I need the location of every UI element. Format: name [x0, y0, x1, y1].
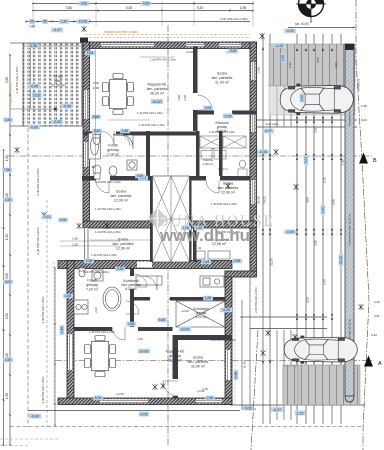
- section marker B: [359, 153, 368, 164]
- roof overhang east lower: [234, 277, 236, 404]
- party wall: [83, 221, 257, 228]
- svg-text:Tervezett kerítés 16,12 fm: Tervezett kerítés 16,12 fm: [348, 213, 352, 246]
- svg-text:2,05: 2,05: [225, 114, 232, 118]
- svg-text:0,30: 0,30: [288, 62, 292, 68]
- svg-text:-0,02: -0,02: [286, 29, 294, 33]
- svg-text:-0,07: -0,07: [273, 408, 281, 412]
- door gap: [193, 93, 198, 110]
- svg-text:1 db PIN A10-1,25m: 1 db PIN A10-1,25m: [91, 253, 118, 257]
- svg-text:2,40: 2,40: [183, 95, 187, 101]
- svg-text:12,96 m²: 12,96 m²: [221, 190, 236, 194]
- svg-text:0,06: 0,06: [245, 406, 252, 410]
- west outer dim line: [54, 268, 56, 425]
- top dimension chain 3: [26, 21, 250, 23]
- szoba south wall: [198, 111, 257, 115]
- svg-text:5,20: 5,20: [197, 6, 204, 10]
- terrace leader line: [10, 108, 58, 110]
- roof overhang east: [253, 41, 255, 271]
- top right level line: [288, 27, 354, 29]
- svg-text:6,20 m²: 6,20 m²: [125, 287, 137, 291]
- svg-text:0,13: 0,13: [44, 215, 51, 219]
- svg-text:Szoba: Szoba: [116, 190, 126, 194]
- fence band right: [345, 44, 354, 396]
- corridor door gap: [100, 132, 116, 136]
- svg-text:1,46: 1,46: [361, 104, 367, 108]
- svg-text:Fürdő: Fürdő: [108, 144, 117, 148]
- svg-text:Nappali+KÉ: Nappali+KÉ: [165, 349, 185, 354]
- west window middle zone: [84, 228, 90, 261]
- top dimension chain 1: [33, 3, 253, 5]
- kitchen counter upper unit: [200, 136, 247, 177]
- bathtub upper: [89, 133, 101, 159]
- svg-text:0,44: 0,44: [361, 118, 367, 122]
- driveway top lower lighter part: [269, 86, 355, 115]
- svg-text:1 db PIN A10-1,25m: 1 db PIN A10-1,25m: [89, 330, 116, 334]
- svg-text:4,60 m²: 4,60 m²: [203, 162, 214, 166]
- svg-text:2,70: 2,70: [323, 177, 327, 183]
- south wall window 2: [196, 399, 222, 403]
- svg-text:-0,05: -0,05: [30, 125, 38, 129]
- svg-text:2,55: 2,55: [86, 259, 93, 263]
- svg-text:lam. parketta: lam. parketta: [212, 76, 233, 80]
- east wall window 3: [251, 180, 256, 204]
- svg-text:2,40: 2,40: [93, 86, 99, 90]
- svg-text:2 db PIN A10-1,25m: 2 db PIN A10-1,25m: [41, 376, 45, 404]
- bath2 door gap: [130, 276, 134, 289]
- svg-text:1,50: 1,50: [5, 393, 9, 399]
- door gap2: [214, 111, 232, 115]
- lower unit east wall: [225, 271, 232, 405]
- south wall: [58, 398, 232, 405]
- svg-text:-0,05: -0,05: [63, 104, 71, 108]
- svg-text:Szoba: Szoba: [217, 72, 227, 76]
- bathtub lower: [103, 287, 121, 311]
- svg-text:2,50: 2,50: [5, 313, 9, 319]
- szoba B north wall: [173, 335, 233, 340]
- dining table upper: [103, 74, 134, 115]
- bath2 east wall: [130, 268, 134, 328]
- svg-text:-0,09: -0,09: [275, 44, 283, 48]
- svg-text:1 db PIN A10-1,00m: 1 db PIN A10-1,00m: [209, 130, 236, 134]
- east wall upper unit: [250, 42, 257, 272]
- wall nappali/szoba vertical: [193, 47, 198, 132]
- svg-text:2 db PIN A10-2,25m: 2 db PIN A10-2,25m: [36, 168, 40, 196]
- kitchen wall lower: [134, 297, 225, 301]
- svg-text:5,05: 5,05: [95, 396, 102, 400]
- svg-text:4,55: 4,55: [143, 2, 150, 6]
- svg-text:95: 95: [30, 20, 34, 24]
- svg-text:1,65: 1,65: [205, 296, 212, 300]
- kamra wall vertical: [219, 131, 223, 176]
- svg-text:5,65: 5,65: [137, 174, 144, 178]
- svg-text:6,00 m²: 6,00 m²: [195, 315, 207, 319]
- svg-text:1 db PIN A10-1,25m: 1 db PIN A10-1,25m: [150, 58, 177, 62]
- west wall upper unit: [83, 42, 90, 228]
- svg-text:3,00: 3,00: [306, 297, 310, 303]
- svg-text:1,50: 1,50: [321, 207, 325, 214]
- driveway bottom left patch: [283, 366, 298, 405]
- svg-text:2,55: 2,55: [128, 322, 135, 326]
- car bottom: [284, 336, 357, 363]
- extra vertical dim lines right: [276, 44, 278, 127]
- svg-text:1 db PIN A10-1,25m: 1 db PIN A10-1,25m: [139, 123, 166, 127]
- vertical extension lines top: [32, 1, 34, 26]
- wardrobe strip east wall: [189, 176, 192, 262]
- svg-text:pd 90: pd 90: [181, 309, 189, 313]
- lower north wall door gap: [137, 262, 152, 268]
- bathroom east wall: [146, 131, 150, 176]
- svg-text:3,00: 3,00: [332, 199, 336, 205]
- lower unit north wall: [58, 261, 232, 269]
- svg-text:10,05: 10,05: [79, 20, 88, 24]
- svg-text:5,65: 5,65: [87, 51, 94, 55]
- fence band top cap: [345, 44, 354, 50]
- svg-text:1,95: 1,95: [240, 6, 247, 10]
- survey marks: [81, 26, 86, 33]
- svg-text:1 db PIN A10-1,00m: 1 db PIN A10-1,00m: [95, 230, 122, 234]
- svg-text:6,30: 6,30: [300, 95, 304, 101]
- svg-text:lam. parketta: lam. parketta: [111, 194, 132, 198]
- svg-text:greslap: greslap: [107, 148, 119, 152]
- kitchen counter lower unit: [136, 276, 224, 287]
- svg-text:terepszint: terepszint: [357, 79, 361, 92]
- svg-text:-0,05: -0,05: [53, 120, 61, 124]
- car top: [280, 84, 353, 115]
- right property boundary dash-dot: [356, 0, 369, 450]
- section marker A: [364, 356, 373, 367]
- section line B-B horizontal: [8, 155, 372, 157]
- svg-text:greslap: greslap: [169, 354, 181, 358]
- svg-text:1,50: 1,50: [5, 358, 12, 362]
- svg-text:meglevő kerítés: meglevő kerítés: [9, 83, 13, 107]
- washing machine upper: [93, 160, 137, 179]
- svg-text:2,55: 2,55: [234, 259, 241, 263]
- szoba B door gap: [173, 379, 179, 396]
- east step wall: [225, 271, 257, 277]
- svg-text:2,70: 2,70: [323, 279, 327, 285]
- left inner dashed line: [46, 200, 48, 427]
- svg-text:3,00: 3,00: [177, 95, 181, 101]
- svg-text:36,30 m²: 36,30 m²: [150, 91, 165, 95]
- svg-text:1 db PIN A10-1,25m: 1 db PIN A10-1,25m: [95, 207, 122, 211]
- svg-text:2 db PIN A10-2,25m: 2 db PIN A10-2,25m: [254, 286, 258, 313]
- terrace bottom edge extension: [10, 125, 23, 127]
- svg-text:-0,47: -0,47: [53, 28, 61, 32]
- bathroom/room wall: [82, 176, 250, 181]
- svg-text:14,12: 14,12: [263, 196, 267, 204]
- svg-text:12,96 m²: 12,96 m²: [116, 246, 131, 250]
- svg-text:pd 90: pd 90: [116, 392, 124, 396]
- svg-text:85: 85: [43, 20, 47, 24]
- wc oval upper: [240, 160, 246, 168]
- bottom dashed boundary: [10, 426, 363, 428]
- svg-text:1,65: 1,65: [65, 294, 72, 298]
- svg-text:-0,05: -0,05: [30, 84, 38, 88]
- svg-text:Szoba: Szoba: [193, 356, 203, 360]
- west wall window 2: [84, 142, 89, 167]
- interior dim line along west wall: [95, 50, 97, 175]
- svg-text:2,31: 2,31: [374, 314, 380, 318]
- svg-text:3,20: 3,20: [314, 127, 318, 133]
- svg-text:1 db PIN A10-1,25m: 1 db PIN A10-1,25m: [210, 338, 237, 342]
- roof overhang west lower: [53, 262, 55, 404]
- svg-text:22,20: 22,20: [270, 258, 274, 266]
- section line vertical F: [167, 25, 169, 447]
- svg-text:0,30: 0,30: [334, 62, 338, 68]
- szoba B west wall: [173, 335, 179, 398]
- svg-text:0,02: 0,02: [34, 93, 41, 97]
- svg-text:-0,05: -0,05: [29, 44, 37, 48]
- svg-text:2,45: 2,45: [203, 260, 210, 264]
- svg-text:0,05: 0,05: [141, 412, 148, 416]
- svg-text:1,65: 1,65: [122, 129, 129, 133]
- svg-text:12,96 m²: 12,96 m²: [114, 198, 129, 202]
- svg-text:3,00: 3,00: [5, 280, 12, 284]
- svg-text:11,40 m²: 11,40 m²: [191, 364, 206, 368]
- svg-text:1,50: 1,50: [341, 159, 345, 165]
- svg-text:7,64: 7,64: [29, 25, 36, 29]
- svg-text:2 db PIN A10-2,25m: 2 db PIN A10-2,25m: [15, 66, 19, 94]
- svg-text:-0,62: -0,62: [31, 414, 39, 418]
- svg-text:6,05: 6,05: [60, 218, 67, 222]
- toilet lower: [79, 268, 85, 277]
- svg-text:lam. parketta: lam. parketta: [147, 87, 168, 91]
- svg-text:36,30 m²: 36,30 m²: [168, 358, 183, 362]
- inner plot boundary dash-dot: [251, 330, 258, 450]
- svg-text:7,20 m²: 7,20 m²: [86, 287, 99, 291]
- svg-text:A: A: [378, 361, 382, 367]
- svg-text:60: 60: [168, 297, 172, 301]
- svg-text:11,48: 11,48: [243, 361, 247, 368]
- door arcs: [198, 95, 213, 110]
- szarito crossed rect: [176, 301, 225, 327]
- svg-text:5,65: 5,65: [93, 115, 100, 119]
- left dimension chain A: [9, 55, 11, 445]
- svg-text:3,50: 3,50: [66, 6, 73, 10]
- terrace inner dim line: [30, 43, 32, 109]
- shower lower: [92, 270, 103, 281]
- fence band tip: [345, 396, 354, 402]
- svg-text:greslap: greslap: [86, 283, 98, 287]
- svg-text:1,50: 1,50: [72, 237, 78, 241]
- svg-text:szt. ±0,00: szt. ±0,00: [295, 22, 309, 26]
- middle zone right wall: [193, 228, 197, 262]
- svg-text:0,30: 0,30: [281, 55, 285, 61]
- svg-text:2,10: 2,10: [94, 307, 98, 313]
- driveway top paving: [269, 44, 355, 86]
- north wall: [83, 42, 257, 49]
- svg-text:-0,05: -0,05: [259, 150, 267, 154]
- kitchen wall gap: [150, 297, 170, 301]
- north wall window 3: [219, 43, 241, 47]
- south wall window 1: [100, 399, 148, 403]
- svg-text:2,33: 2,33: [371, 333, 377, 337]
- svg-text:5,45: 5,45: [126, 6, 133, 10]
- svg-text:7,18 m²: 7,18 m²: [107, 152, 120, 156]
- scattered blue dimension labels: [79, 1, 89, 6]
- svg-text:Nappali+KÉ: Nappali+KÉ: [147, 82, 167, 87]
- svg-text:1,23: 1,23: [297, 411, 304, 415]
- svg-text:2,45: 2,45: [207, 396, 214, 400]
- north wall window 2: [186, 43, 204, 47]
- svg-text:0,50: 0,50: [316, 57, 320, 63]
- svg-text:1 db PIN A10-1,25m: 1 db PIN A10-1,25m: [137, 111, 164, 115]
- svg-text:kerti csap: kerti csap: [266, 122, 279, 126]
- kamra wall vertical 2: [196, 131, 200, 176]
- east wall lower window: [226, 350, 231, 380]
- svg-text:3,20: 3,20: [314, 240, 318, 246]
- svg-text:3,00: 3,00: [304, 157, 308, 164]
- svg-text:lam. parketta: lam. parketta: [113, 242, 134, 246]
- svg-text:1 db PIN A10-1,00m: 1 db PIN A10-1,00m: [95, 180, 122, 184]
- svg-text:7,98: 7,98: [4, 168, 11, 172]
- svg-text:2,48: 2,48: [60, 327, 64, 334]
- toilet upper: [93, 135, 100, 145]
- tan fence note top: [85, 34, 250, 36]
- stair lattice: [153, 176, 190, 262]
- terrace outline: [23, 43, 82, 126]
- svg-text:2,10: 2,10: [202, 387, 208, 391]
- left property dashed line: [27, 128, 29, 427]
- svg-text:Fürdő: Fürdő: [87, 279, 96, 283]
- svg-text:3,45: 3,45: [230, 49, 237, 53]
- lower unit west wall: [67, 261, 74, 405]
- svg-text:-0,05: -0,05: [222, 308, 230, 312]
- svg-text:meglevő kerítés vonala: meglevő kerítés vonala: [104, 30, 138, 34]
- svg-text:HL: HL: [198, 246, 202, 250]
- hall south wall: [74, 327, 173, 331]
- svg-text:www.dh.hu: www.dh.hu: [159, 226, 250, 245]
- svg-text:3,00: 3,00: [93, 81, 99, 85]
- svg-text:1,65: 1,65: [94, 129, 101, 133]
- bottom left dashes: [0, 438, 58, 440]
- left dimension chain B: [3, 150, 5, 445]
- svg-text:2 db PIN A10-2,25m: 2 db PIN A10-2,25m: [220, 17, 248, 21]
- corridor wall: [83, 132, 198, 136]
- svg-text:2,48: 2,48: [257, 67, 261, 73]
- svg-text:lam. parketta: lam. parketta: [188, 360, 209, 364]
- svg-text:21,48: 21,48: [257, 196, 261, 204]
- right horizontals: [250, 119, 357, 121]
- HL box middle: [196, 251, 230, 259]
- svg-text:1,40: 1,40: [137, 337, 143, 341]
- roof overhang top: [82, 37, 250, 39]
- misc leader lines upper: [140, 56, 175, 58]
- svg-text:2,55: 2,55: [117, 267, 124, 271]
- west wall window: [84, 90, 89, 119]
- svg-text:90: 90: [211, 147, 215, 151]
- north wall window 1: [101, 43, 154, 47]
- svg-text:pd 90: pd 90: [186, 50, 194, 54]
- svg-text:2 db PIN A10-1,25m: 2 db PIN A10-1,25m: [41, 296, 45, 324]
- svg-text:2,33: 2,33: [374, 300, 380, 304]
- svg-text:3,50: 3,50: [5, 273, 9, 279]
- terrace top extension: [10, 42, 23, 44]
- svg-text:-0,05: -0,05: [286, 230, 294, 234]
- svg-text:1 db PIN A10-1,00m: 1 db PIN A10-1,00m: [83, 270, 110, 274]
- east wall window 2: [251, 113, 256, 132]
- north wall corner pillar: [80, 38, 88, 43]
- north compass: [296, 0, 326, 23]
- svg-text:-0,07: -0,07: [264, 129, 272, 133]
- hall door gaps: [112, 327, 138, 331]
- svg-text:1,80 m²: 1,80 m²: [218, 167, 228, 171]
- svg-text:1,50: 1,50: [72, 243, 78, 247]
- svg-text:3,60: 3,60: [81, 2, 88, 6]
- svg-text:3,00: 3,00: [306, 197, 310, 203]
- terrace top inner line: [23, 45, 83, 47]
- svg-text:3,50: 3,50: [5, 118, 12, 122]
- svg-text:11,40 m²: 11,40 m²: [215, 80, 230, 84]
- svg-text:1,50: 1,50: [5, 155, 9, 161]
- svg-text:2,05: 2,05: [205, 106, 212, 110]
- sink upper: [113, 134, 133, 149]
- svg-text:2,30: 2,30: [61, 20, 68, 24]
- dining table lower: [85, 336, 116, 377]
- svg-text:1,50: 1,50: [5, 234, 9, 240]
- watermark logo diamond: [147, 208, 168, 229]
- svg-text:±0,00: ±0,00: [140, 349, 149, 353]
- right vertical dimension lines: [262, 34, 264, 424]
- svg-text:2 db PIN A10-2,25m: 2 db PIN A10-2,25m: [36, 227, 40, 255]
- svg-text:1,50: 1,50: [5, 198, 12, 202]
- svg-text:21,36 m²: 21,36 m²: [51, 83, 66, 87]
- svg-text:1 db PIN A10-1,25m: 1 db PIN A10-1,25m: [211, 202, 238, 206]
- svg-text:±0,00: ±0,00: [153, 100, 162, 104]
- svg-text:±0,00: ±0,00: [181, 327, 190, 331]
- wardrobe strip west wall: [150, 176, 153, 262]
- top dimension chain 2: [33, 10, 253, 12]
- west wall lower window: [68, 334, 73, 370]
- svg-text:B: B: [373, 158, 377, 164]
- room door gaps: [96, 176, 110, 181]
- driveway top arrows row: [296, 48, 298, 51]
- svg-text:22,20: 22,20: [339, 256, 343, 265]
- svg-text:5,65: 5,65: [159, 318, 166, 322]
- stripes continue over lower part: [277, 86, 348, 115]
- svg-text:3,50: 3,50: [5, 77, 9, 83]
- section line A-A horizontal: [55, 360, 374, 362]
- east wall window 1: [251, 62, 256, 80]
- driveway bottom paving: [283, 365, 360, 405]
- svg-text:90: 90: [91, 165, 95, 169]
- sink lower: [74, 300, 88, 314]
